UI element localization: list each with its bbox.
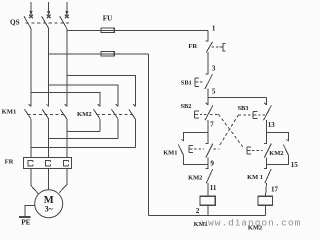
svg-text:SB1: SB1 [181, 79, 192, 86]
svg-text:KM1: KM1 [163, 150, 177, 157]
svg-text:QS: QS [10, 19, 20, 27]
svg-text:SB2: SB2 [180, 103, 191, 110]
svg-text:11: 11 [210, 184, 217, 192]
svg-text:KM1: KM1 [2, 109, 17, 116]
svg-text:2: 2 [196, 207, 200, 215]
svg-text:KM2: KM2 [188, 175, 202, 182]
svg-text:FU: FU [103, 14, 113, 22]
svg-text:KM2: KM2 [77, 111, 92, 118]
svg-text:www.diangon.com: www.diangon.com [202, 218, 301, 229]
svg-text:PE: PE [21, 218, 30, 226]
svg-text:FR: FR [5, 158, 14, 165]
svg-text:7: 7 [210, 121, 214, 129]
svg-text:9: 9 [210, 160, 214, 168]
svg-text:13: 13 [268, 121, 276, 129]
svg-text:1: 1 [212, 25, 216, 33]
svg-text:KM 1: KM 1 [247, 174, 263, 181]
svg-text:SB3: SB3 [237, 105, 248, 112]
svg-text:5: 5 [212, 88, 216, 96]
svg-text:17: 17 [271, 185, 279, 193]
svg-text:3: 3 [212, 64, 216, 72]
svg-text:FR: FR [188, 43, 197, 50]
svg-text:3~: 3~ [45, 205, 54, 214]
svg-text:KM2: KM2 [269, 150, 283, 157]
svg-text:15: 15 [291, 161, 299, 169]
